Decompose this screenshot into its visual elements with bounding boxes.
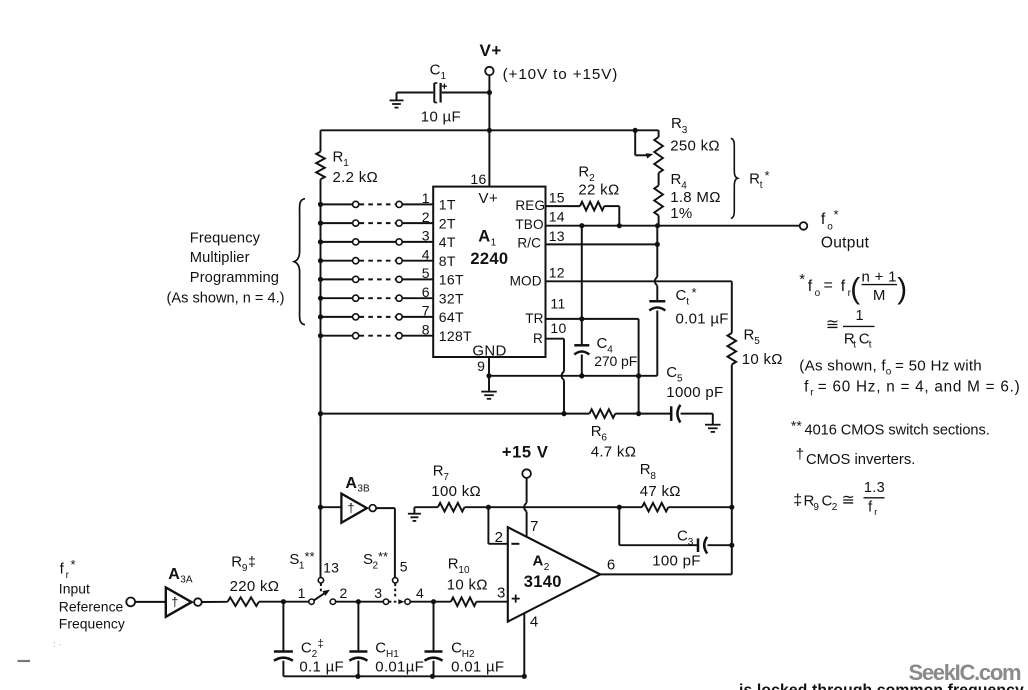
svg-text:C: C [676, 287, 687, 304]
svg-text:**: ** [791, 418, 802, 434]
svg-text:10: 10 [458, 565, 470, 576]
svg-text:(+10V to +15V): (+10V to +15V) [503, 66, 619, 83]
svg-text:4: 4 [422, 246, 430, 262]
svg-text:2.2 kΩ: 2.2 kΩ [333, 169, 379, 186]
svg-text:6: 6 [601, 433, 607, 444]
svg-text:TR: TR [525, 311, 543, 326]
svg-text:r: r [874, 507, 877, 517]
svg-text:Output: Output [821, 234, 870, 251]
svg-text:6: 6 [422, 284, 430, 300]
svg-text:*: * [834, 207, 839, 222]
svg-text:f: f [808, 278, 813, 295]
svg-text:C: C [666, 364, 677, 381]
svg-text:C: C [375, 640, 386, 657]
svg-text:3140: 3140 [524, 573, 562, 591]
svg-text:o: o [815, 288, 821, 299]
svg-text:C: C [430, 62, 441, 79]
svg-text:is locked through common frequ: is locked through common frequency [739, 682, 1024, 690]
svg-text:0.01 µF: 0.01 µF [451, 659, 504, 676]
svg-text:10: 10 [550, 320, 566, 336]
svg-text:r: r [810, 388, 814, 399]
svg-text:**: ** [305, 549, 315, 564]
svg-text:V+: V+ [480, 41, 502, 60]
svg-text:R: R [671, 171, 682, 188]
svg-text:2240: 2240 [470, 250, 508, 268]
svg-text:C: C [301, 640, 312, 657]
svg-text:1: 1 [298, 585, 306, 601]
svg-text:8: 8 [650, 471, 656, 482]
svg-text:14: 14 [549, 209, 565, 225]
svg-text:Programming: Programming [190, 270, 279, 286]
svg-text:1: 1 [422, 190, 430, 206]
svg-text:10 kΩ: 10 kΩ [447, 577, 488, 594]
svg-text:o: o [886, 366, 892, 377]
svg-text:): ) [897, 273, 907, 306]
svg-text:CMOS inverters.: CMOS inverters. [806, 452, 915, 468]
svg-text:Input: Input [59, 581, 90, 597]
svg-text:10 µF: 10 µF [421, 108, 461, 125]
svg-text:V+: V+ [479, 190, 499, 207]
svg-text:0.01 µF: 0.01 µF [676, 310, 729, 327]
svg-text:4T: 4T [439, 234, 456, 250]
svg-text:=: = [824, 277, 834, 294]
svg-text:R: R [448, 555, 459, 572]
svg-text:4: 4 [416, 585, 424, 601]
svg-text:100 pF: 100 pF [652, 552, 701, 569]
svg-text:R: R [578, 164, 589, 181]
svg-text:C: C [597, 335, 608, 352]
svg-text:1: 1 [491, 238, 497, 249]
svg-text:5: 5 [754, 336, 760, 347]
svg-text:Frequency: Frequency [59, 616, 125, 632]
svg-text:12: 12 [549, 264, 565, 280]
svg-text:4: 4 [530, 613, 539, 630]
svg-text:: ·: : · [53, 639, 62, 649]
svg-text:R: R [433, 463, 444, 480]
svg-text:f: f [868, 500, 873, 516]
svg-text:22 kΩ: 22 kΩ [578, 182, 619, 199]
svg-text:32T: 32T [439, 290, 464, 306]
svg-text:= 50 Hz with: = 50 Hz with [895, 357, 982, 374]
svg-text:n + 1: n + 1 [862, 269, 897, 286]
svg-text:1: 1 [441, 71, 447, 82]
svg-text:4.7 kΩ: 4.7 kΩ [591, 444, 637, 461]
svg-text:≅: ≅ [826, 317, 840, 334]
svg-text:R/C: R/C [517, 236, 541, 251]
svg-text:R: R [333, 149, 344, 166]
svg-text:13: 13 [549, 228, 565, 244]
svg-text:270 pF: 270 pF [594, 353, 637, 369]
svg-text:C: C [451, 640, 462, 657]
svg-text:*: * [71, 557, 76, 572]
svg-text:f: f [60, 561, 65, 578]
svg-text:2: 2 [832, 502, 838, 513]
svg-text:MOD: MOD [510, 273, 542, 288]
svg-text:8T: 8T [439, 253, 456, 269]
svg-text:47 kΩ: 47 kΩ [640, 483, 681, 500]
svg-text:R: R [749, 171, 760, 188]
svg-text:7: 7 [530, 518, 539, 535]
svg-text:f: f [804, 379, 809, 396]
svg-text:A: A [478, 227, 490, 245]
svg-text:1: 1 [343, 158, 349, 169]
svg-text:M: M [873, 287, 886, 304]
svg-text:13: 13 [323, 560, 339, 576]
svg-text:0.1 µF: 0.1 µF [299, 659, 344, 676]
svg-text:†: † [796, 446, 805, 463]
svg-text:9: 9 [242, 563, 248, 574]
svg-text:R: R [640, 461, 651, 478]
svg-text:†: † [347, 500, 355, 515]
svg-text:‡: ‡ [318, 638, 324, 650]
svg-text:2: 2 [495, 529, 504, 546]
svg-text:3: 3 [682, 125, 688, 136]
svg-text:1000 pF: 1000 pF [666, 384, 723, 401]
svg-text:250 kΩ: 250 kΩ [670, 138, 720, 155]
svg-text:+15 V: +15 V [502, 444, 549, 462]
svg-text:4016 CMOS switch sections.: 4016 CMOS switch sections. [805, 423, 990, 439]
svg-text:2: 2 [422, 209, 430, 225]
svg-text:3: 3 [688, 537, 694, 548]
svg-text:SeekIC.com: SeekIC.com [909, 660, 1021, 685]
svg-text:‡: ‡ [248, 553, 256, 569]
svg-text:5: 5 [400, 559, 408, 575]
svg-text:5: 5 [422, 265, 430, 281]
svg-text:3: 3 [497, 584, 506, 601]
svg-text:2: 2 [340, 585, 348, 601]
svg-text:*: * [692, 285, 697, 300]
svg-text:6: 6 [607, 557, 616, 574]
svg-text:A: A [533, 552, 544, 569]
svg-text:1: 1 [856, 308, 864, 324]
svg-text:100 kΩ: 100 kΩ [431, 483, 481, 500]
svg-text:f: f [841, 278, 846, 295]
svg-text:†: † [171, 595, 179, 610]
svg-text:3: 3 [374, 585, 382, 601]
svg-text:TBO: TBO [515, 217, 543, 232]
svg-text:16: 16 [470, 171, 486, 187]
svg-text:7: 7 [443, 472, 449, 483]
svg-text:16T: 16T [439, 272, 464, 288]
svg-text:r: r [66, 570, 70, 581]
svg-text:t: t [760, 180, 763, 191]
svg-text:C: C [677, 528, 688, 545]
svg-text:10 kΩ: 10 kΩ [742, 351, 783, 368]
svg-text:*: * [799, 271, 805, 288]
svg-text:(: ( [850, 273, 860, 306]
svg-text:f: f [821, 211, 826, 228]
svg-text:7: 7 [422, 303, 430, 319]
svg-text:R: R [533, 331, 543, 346]
svg-text:t: t [853, 340, 856, 351]
svg-text:3: 3 [422, 228, 430, 244]
svg-text:128T: 128T [439, 328, 472, 344]
svg-text:64T: 64T [439, 309, 464, 325]
svg-text:Reference: Reference [59, 599, 124, 615]
svg-text:3B: 3B [357, 484, 370, 495]
svg-text:R: R [744, 327, 755, 344]
svg-text:A: A [345, 475, 357, 492]
svg-text:t: t [869, 340, 872, 351]
svg-text:2T: 2T [439, 215, 456, 231]
svg-text:(As shown, n = 4.): (As shown, n = 4.) [167, 290, 285, 306]
svg-text:Multiplier: Multiplier [190, 250, 250, 266]
svg-text:(As shown, f: (As shown, f [799, 357, 886, 374]
svg-text:R: R [591, 423, 602, 440]
svg-text:o: o [827, 222, 833, 233]
svg-text:1.3: 1.3 [864, 480, 885, 496]
svg-text:**: ** [378, 549, 388, 564]
svg-text:9: 9 [813, 502, 819, 513]
svg-text:A: A [168, 566, 180, 583]
svg-text:220 kΩ: 220 kΩ [230, 578, 280, 595]
svg-text:t: t [686, 297, 689, 308]
svg-text:REG: REG [515, 198, 545, 213]
svg-text:*: * [765, 168, 770, 183]
svg-text:15: 15 [549, 190, 565, 206]
svg-text:= 60 Hz, n = 4, and M = 6.): = 60 Hz, n = 4, and M = 6.) [818, 379, 1021, 396]
svg-text:8: 8 [422, 321, 430, 337]
svg-text:R: R [231, 553, 242, 570]
svg-text:1%: 1% [670, 205, 692, 222]
svg-text:GND: GND [472, 342, 506, 359]
svg-text:R: R [671, 115, 682, 132]
svg-text:0.01µF: 0.01µF [375, 659, 424, 676]
svg-text:‡: ‡ [793, 492, 802, 509]
svg-text:1T: 1T [439, 197, 456, 213]
svg-text:9: 9 [477, 358, 485, 374]
svg-text:3A: 3A [180, 575, 193, 586]
svg-text:≅: ≅ [842, 492, 856, 509]
svg-text:2: 2 [544, 562, 550, 573]
svg-text:Frequency: Frequency [190, 231, 261, 247]
svg-text:11: 11 [550, 295, 565, 311]
svg-text:1.8 MΩ: 1.8 MΩ [670, 189, 721, 206]
